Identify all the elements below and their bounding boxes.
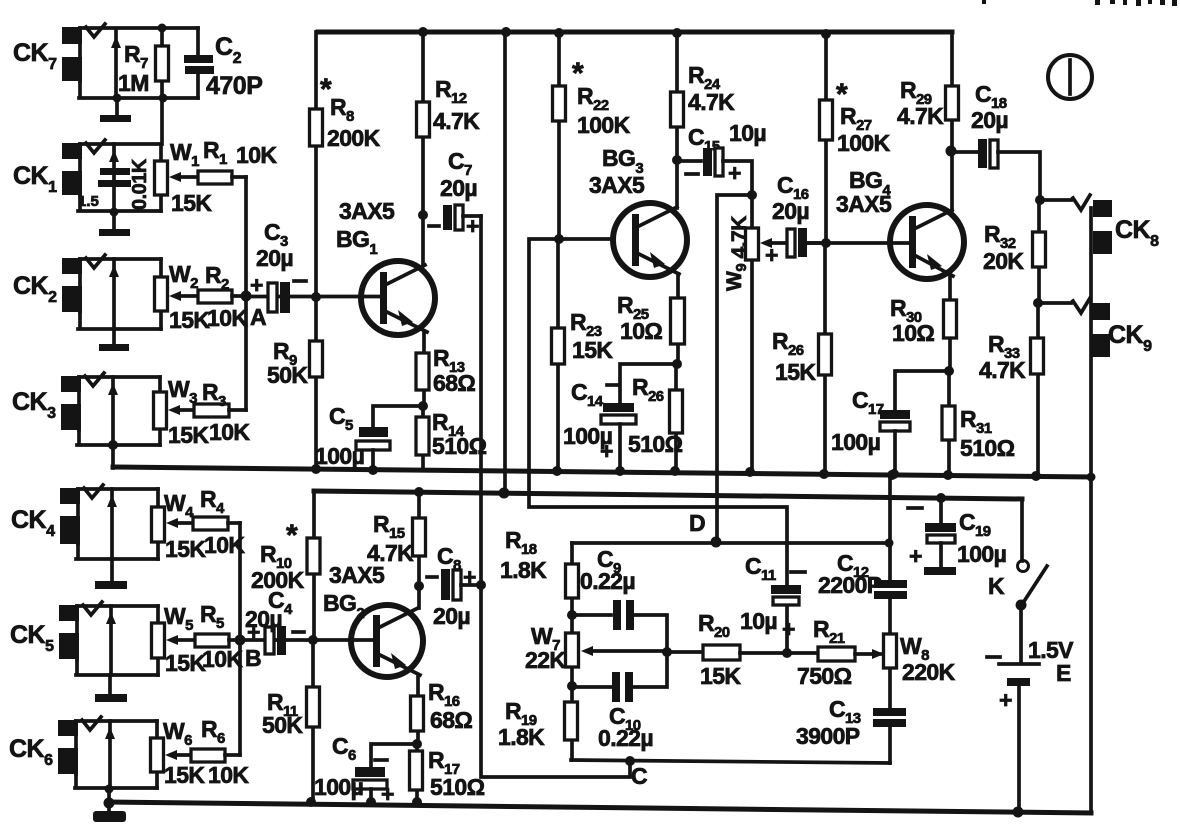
svg-text:15K: 15K bbox=[165, 650, 206, 676]
capacitor C13 3900P bbox=[873, 708, 906, 716]
svg-text:100µ: 100µ bbox=[957, 541, 1006, 567]
svg-text:100µ: 100µ bbox=[831, 429, 880, 455]
resistor R31 510ohm bbox=[947, 371, 951, 475]
wire: tone box left side bbox=[570, 543, 574, 760]
resistor R26b 15K bbox=[823, 243, 827, 474]
svg-text:50K: 50K bbox=[262, 712, 303, 738]
resistor R30 10ohm bbox=[948, 276, 952, 371]
svg-text:15K: 15K bbox=[168, 422, 209, 448]
svg-text:+: + bbox=[247, 619, 260, 645]
node: BG3 emitter bypass junction bbox=[672, 359, 682, 369]
potentiometer W9 4.7K bbox=[750, 195, 754, 472]
resistor R12 4.7K bbox=[421, 32, 425, 265]
jack CK6 bbox=[58, 720, 78, 736]
wire: CK7 tip lead bbox=[114, 30, 118, 98]
resistor R4 10K bbox=[193, 517, 228, 530]
resistor R3 10K bbox=[194, 404, 229, 417]
svg-text:10µ: 10µ bbox=[729, 120, 766, 146]
svg-text:2200P: 2200P bbox=[818, 572, 882, 598]
wire: CK7 to W1 bbox=[160, 98, 164, 144]
jack CK5 bbox=[59, 605, 79, 621]
resistor R25 10ohm bbox=[676, 274, 680, 364]
svg-text:15K: 15K bbox=[171, 190, 212, 216]
svg-text:220K: 220K bbox=[902, 659, 956, 685]
svg-text:100K: 100K bbox=[577, 112, 631, 138]
node: supply feed top bbox=[501, 27, 511, 37]
svg-text:15K: 15K bbox=[700, 663, 741, 689]
capacitor C9 0.22u bbox=[572, 615, 667, 652]
wire: to jack CK9 bbox=[1038, 301, 1071, 305]
svg-text:+: + bbox=[381, 781, 394, 807]
capacitor 0.01 (CK1) bbox=[100, 168, 130, 175]
wire: CK3 top bbox=[79, 375, 160, 379]
wire: summing node A vertical bbox=[244, 177, 248, 410]
wire: CK2 tip lead bbox=[112, 259, 116, 329]
wire: bottom battery rail bbox=[109, 802, 1091, 813]
svg-text:100K: 100K bbox=[837, 130, 891, 156]
node: BG2 base bias junction bbox=[308, 635, 318, 645]
node C bbox=[625, 756, 635, 766]
capacitor C10 0.22u bbox=[572, 652, 667, 687]
node: BG4 emitter bypass junction bbox=[944, 366, 954, 376]
svg-text:+: + bbox=[250, 272, 263, 298]
wire: CK6 bottom bbox=[75, 774, 157, 788]
svg-text:3AX5: 3AX5 bbox=[339, 198, 395, 224]
svg-text:3AX5: 3AX5 bbox=[589, 172, 645, 198]
wire: summing node B vertical bbox=[238, 523, 242, 755]
wire: CK3 tip lead bbox=[111, 377, 115, 445]
svg-text:15K: 15K bbox=[775, 359, 816, 385]
svg-text:15K: 15K bbox=[165, 536, 206, 562]
svg-text:10Ω: 10Ω bbox=[620, 318, 662, 344]
resistor R6 10K bbox=[191, 749, 225, 762]
node B bbox=[235, 635, 246, 646]
wire: middle ground rail bbox=[113, 467, 1091, 477]
svg-text:+: + bbox=[600, 438, 613, 464]
wire: CK4 tip lead bbox=[110, 489, 114, 559]
node: CK3 to ground rail bbox=[108, 440, 118, 450]
switch K bbox=[1020, 499, 1024, 561]
resistor R17 510ohm bbox=[415, 744, 419, 802]
svg-text:20µ: 20µ bbox=[440, 175, 477, 201]
svg-text:+: + bbox=[728, 160, 741, 186]
node: BG4 collector / C18 junction bbox=[946, 146, 957, 157]
jack CK8 bbox=[1093, 200, 1112, 217]
resistor R19 1.8K bbox=[565, 702, 578, 740]
ground (CK5) bbox=[108, 675, 112, 696]
wire: BG3 base to tone network (C11 feedback line) bbox=[529, 239, 787, 586]
node: C11 / R20 / R21 junction bbox=[782, 648, 792, 658]
node: C7/C8 output join bbox=[476, 580, 486, 590]
svg-text:100µ: 100µ bbox=[314, 774, 363, 800]
wire: to jack CK8 bbox=[1040, 198, 1071, 202]
jack CK4 bbox=[60, 488, 80, 504]
node: BG1 collector / C7 junction bbox=[418, 210, 428, 220]
transistor BG2 3AX5 bbox=[351, 605, 423, 677]
transistor BG4 3AX5 bbox=[890, 205, 964, 279]
resistor R15 4.7K bbox=[417, 492, 421, 608]
potentiometer W4 15K bbox=[156, 489, 160, 559]
svg-text:E: E bbox=[1056, 660, 1071, 686]
potentiometer W7 22K bbox=[566, 633, 579, 667]
svg-text:3900P: 3900P bbox=[796, 723, 860, 749]
svg-text:15K: 15K bbox=[169, 307, 210, 333]
potentiometer W8 220K bbox=[884, 634, 897, 668]
svg-text:10K: 10K bbox=[209, 419, 250, 445]
wire: right edge vertical (jack sleeves to battery +) bbox=[1089, 208, 1093, 813]
capacitor C6 100u bbox=[371, 744, 417, 768]
svg-text:4.7K: 4.7K bbox=[897, 103, 944, 129]
node: BG4 base junction bbox=[821, 238, 831, 248]
wire: CK1 tip lead bbox=[112, 144, 116, 211]
svg-text:15K: 15K bbox=[164, 762, 205, 788]
wire: CK1 bottom bbox=[78, 195, 161, 211]
svg-text:A: A bbox=[250, 304, 266, 330]
node: CK6 to bottom rail bbox=[105, 785, 114, 794]
node: BG1 emitter bypass junction bbox=[418, 401, 428, 411]
ground (CK1) bbox=[112, 211, 116, 231]
resistor R1 10K bbox=[198, 171, 232, 184]
resistor R8 200K bbox=[314, 32, 318, 297]
svg-text:10K: 10K bbox=[207, 305, 248, 331]
resistor R14 510ohm bbox=[421, 406, 425, 470]
svg-text:20µ: 20µ bbox=[772, 198, 809, 224]
node A bbox=[241, 291, 252, 302]
capacitor C11 10u bbox=[785, 606, 789, 653]
capacitor C4 20u bbox=[240, 638, 374, 642]
resistor R29 4.7K bbox=[950, 32, 954, 210]
svg-text:4.7K: 4.7K bbox=[979, 357, 1026, 383]
node: C15 / W9 / D junction bbox=[747, 190, 757, 200]
svg-text:D: D bbox=[689, 510, 705, 536]
svg-text:*: * bbox=[286, 519, 298, 552]
battery E 1.5V bbox=[1019, 605, 1023, 663]
svg-text:510Ω: 510Ω bbox=[960, 435, 1015, 461]
resistor R22 100K bbox=[557, 32, 561, 239]
svg-text:20µ: 20µ bbox=[433, 603, 470, 629]
resistor R7 bbox=[160, 28, 164, 98]
svg-text:3AX5: 3AX5 bbox=[836, 191, 892, 217]
node: CK8 tap bbox=[1035, 195, 1045, 205]
node: BG2 emitter bypass junction bbox=[412, 739, 422, 749]
wire: lower supply rail (to switch K) bbox=[314, 491, 1022, 499]
node: BG1 base bias junction bbox=[311, 292, 321, 302]
node: CK9 tap bbox=[1033, 298, 1043, 308]
resistor R21 750ohm bbox=[787, 651, 818, 655]
svg-text:0.22µ: 0.22µ bbox=[580, 568, 635, 594]
svg-text:10K: 10K bbox=[202, 646, 243, 672]
resistor R23 15K bbox=[556, 239, 560, 471]
svg-text:22K: 22K bbox=[525, 647, 566, 673]
jack CK3 bbox=[61, 376, 81, 392]
svg-text:+: + bbox=[999, 687, 1012, 713]
svg-text:1.8K: 1.8K bbox=[498, 724, 545, 750]
potentiometer W2 15K bbox=[159, 259, 163, 329]
wire: CK2 bottom bbox=[78, 312, 161, 329]
svg-text:470P: 470P bbox=[206, 72, 262, 100]
marker: circled I symbol bbox=[1048, 55, 1092, 99]
resistor R13 68ohm bbox=[422, 331, 426, 406]
svg-text:4.7K: 4.7K bbox=[688, 89, 735, 115]
svg-text:50K: 50K bbox=[267, 362, 308, 388]
transistor BG3 3AX5 bbox=[613, 203, 687, 277]
resistor R5 10K bbox=[195, 634, 229, 647]
ground (CK6, chassis) bbox=[107, 803, 111, 813]
resistor R10 200K bbox=[312, 491, 316, 640]
capacitor C2 bbox=[196, 28, 200, 98]
wire: CK5 top bbox=[77, 604, 158, 608]
node D bbox=[711, 537, 722, 548]
capacitor C3 20u bbox=[246, 295, 381, 299]
resistor R9 50K bbox=[314, 297, 318, 469]
resistor R32 20K bbox=[1037, 200, 1041, 303]
svg-text:4.7K: 4.7K bbox=[367, 540, 414, 566]
svg-text:510Ω: 510Ω bbox=[432, 433, 487, 459]
capacitor C14 100u bbox=[620, 364, 677, 404]
wire: CK4 top bbox=[78, 487, 158, 491]
svg-text:100µ: 100µ bbox=[315, 443, 364, 469]
capacitor C17 100u bbox=[895, 371, 949, 411]
node: rail1 right end junction bbox=[1087, 473, 1096, 482]
svg-text:10K: 10K bbox=[208, 762, 249, 788]
svg-text:1.8K: 1.8K bbox=[500, 557, 547, 583]
wire: BG4 base bbox=[807, 241, 910, 245]
svg-text:68Ω: 68Ω bbox=[430, 707, 472, 733]
svg-text:C: C bbox=[631, 763, 647, 789]
jack CK7 bbox=[62, 27, 82, 44]
wire: CK7 bottom bbox=[79, 81, 198, 98]
capacitor C19 100u bbox=[936, 493, 946, 503]
wire: CK5 tip lead bbox=[109, 606, 113, 675]
wire: vertical supply feed from rail2 to top rail bbox=[503, 32, 507, 493]
potentiometer W3 15K bbox=[158, 377, 162, 445]
wire: CK1 top bbox=[80, 142, 161, 146]
svg-text:20µ: 20µ bbox=[971, 107, 1008, 133]
svg-text:+: + bbox=[909, 543, 922, 569]
svg-text:1M: 1M bbox=[118, 70, 149, 96]
svg-text:+: + bbox=[782, 616, 795, 642]
node: W7/R19/C10 junction bbox=[567, 681, 577, 691]
potentiometer W1 15K bbox=[159, 144, 163, 211]
node: BG3 base junction bbox=[554, 234, 564, 244]
resistor R27 100K bbox=[824, 34, 828, 243]
node: W7 wiper / R20 junction bbox=[662, 647, 672, 657]
ground (CK2) bbox=[112, 329, 116, 346]
ground (CK4) bbox=[110, 559, 114, 583]
wire: node D feed line bbox=[717, 195, 752, 541]
potentiometer W5 15K bbox=[156, 606, 160, 675]
svg-text:0.01K: 0.01K bbox=[129, 158, 151, 210]
svg-text:68Ω: 68Ω bbox=[433, 370, 475, 396]
svg-text:15K: 15K bbox=[572, 337, 613, 363]
decorative top-edge print remnants bbox=[982, 0, 986, 4]
potentiometer W6 15K bbox=[155, 721, 159, 788]
svg-text:750Ω: 750Ω bbox=[797, 663, 852, 689]
node: tone box top-right to ground rail bbox=[887, 470, 897, 480]
wire: CK6 tip lead bbox=[108, 721, 112, 788]
wire: CK6 top bbox=[76, 719, 157, 723]
wire: top supply rail bbox=[318, 30, 952, 35]
resistor R16 68ohm bbox=[416, 675, 420, 744]
wire: CK4 bottom bbox=[76, 544, 158, 559]
node: BG3 collector / C15 junction bbox=[672, 155, 682, 165]
wire: tone box top border bbox=[572, 541, 889, 545]
wire: tone box bottom border bbox=[571, 760, 890, 763]
svg-text:20µ: 20µ bbox=[256, 245, 293, 271]
jack CK9 bbox=[1092, 303, 1110, 320]
capacitor C12 2200P bbox=[874, 580, 907, 588]
jack CK2 bbox=[62, 258, 82, 274]
svg-text:0.22µ: 0.22µ bbox=[598, 725, 653, 751]
node: R18/W7/C9 junction bbox=[567, 610, 577, 620]
wire: CK5 bottom bbox=[76, 659, 158, 675]
wire: tone box right side bbox=[888, 477, 892, 763]
resistor R26 510ohm bbox=[674, 364, 678, 471]
node: BG2 collector / C8 junction bbox=[414, 581, 424, 591]
resistor R33 4.7K bbox=[1036, 303, 1040, 476]
node: supply feed bottom on rail2 bbox=[499, 488, 510, 499]
svg-text:4.7K: 4.7K bbox=[433, 108, 480, 134]
svg-text:200K: 200K bbox=[327, 125, 381, 151]
ground (CK7) bbox=[115, 98, 119, 117]
wire: CK3 bottom bbox=[77, 430, 160, 445]
resistor R20 15K bbox=[667, 650, 703, 654]
node: CK7 bottom junction bbox=[159, 94, 168, 103]
svg-text:510Ω: 510Ω bbox=[628, 431, 683, 457]
svg-text:10Ω: 10Ω bbox=[892, 320, 934, 346]
svg-text:K: K bbox=[988, 573, 1005, 599]
jack CK1 bbox=[62, 143, 82, 159]
wire: stage1/2 output bus down to node C bbox=[481, 216, 630, 777]
resistor R18 1.8K bbox=[566, 564, 579, 598]
svg-text:B: B bbox=[245, 645, 261, 671]
svg-text:20K: 20K bbox=[983, 248, 1024, 274]
transistor BG1 3AX5 bbox=[361, 261, 435, 335]
svg-text:10K: 10K bbox=[236, 142, 277, 168]
wire: CK2 top bbox=[80, 257, 161, 261]
resistor R2 10K bbox=[198, 290, 232, 303]
svg-text:10µ: 10µ bbox=[740, 608, 777, 634]
svg-text:510Ω: 510Ω bbox=[430, 774, 485, 800]
resistor R24 4.7K bbox=[675, 33, 679, 208]
resistor R11 50K bbox=[311, 640, 315, 802]
node: CK7 top junction bbox=[158, 24, 167, 33]
svg-text:+: + bbox=[765, 242, 778, 268]
wire: CK7 top bbox=[80, 26, 198, 30]
capacitor C5 100u bbox=[373, 406, 423, 428]
